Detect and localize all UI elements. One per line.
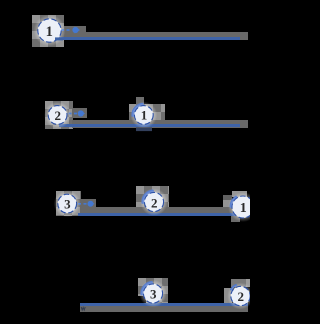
checkerboard cells behind badge 2 (row 4) [231, 279, 246, 287]
svg-text:2: 2 [55, 108, 62, 123]
badge 1 row 2 [130, 102, 157, 129]
badge 3 row 3 [54, 190, 81, 217]
gray highlight band row 2 [72, 120, 248, 128]
dashed arrow from badge 3 row 3 [78, 201, 95, 207]
dashed arrow from badge 1 row 1 [61, 27, 80, 34]
gray tooltip patch behind arrow row 3 [80, 199, 96, 208]
svg-text:1: 1 [46, 24, 53, 40]
badge 1 row 1 [34, 15, 66, 47]
blue underline row 2 [59, 124, 240, 127]
thick arc highlight at badge 1 row 2 [133, 104, 142, 115]
blue underline row 4 [80, 303, 248, 306]
badges and arrows overlay [0, 0, 250, 324]
thick arc highlight at badge 2 row 3 [143, 191, 153, 202]
badge 1 row 3 [228, 192, 258, 222]
blue underline overlapping badge 1 row 1 [55, 37, 63, 40]
badge 2 row 2 [44, 102, 71, 129]
thick arc highlight at badge 3 row 4 [142, 283, 152, 294]
gray tooltip patch behind arrow row 1 [64, 26, 86, 34]
faint text remnant under badge 1 row 2 [136, 128, 152, 132]
gray highlight band row 1 [64, 32, 248, 41]
svg-text:2: 2 [237, 289, 244, 304]
checkerboard cells behind badge 1 (row 3) [232, 191, 247, 197]
badge 3 row 4 [139, 280, 167, 308]
blue underline row 3 [78, 213, 244, 216]
svg-text:1: 1 [240, 201, 247, 216]
checkerboard behind badge 1 (row 1) [32, 15, 64, 47]
gray highlight band row 4 [80, 306, 248, 311]
blue underline row 1 [55, 37, 240, 40]
checkerboard behind badge 3 (row 3) [56, 191, 81, 216]
badge 2 row 4 [227, 283, 254, 310]
short arc mark at badge 2 row 4 [231, 285, 236, 290]
faint glyph mark at row 4 band start [81, 307, 85, 310]
svg-text:1: 1 [141, 107, 148, 122]
thick arc highlight at badge 1 row 3 [231, 197, 236, 207]
gray tooltip patch behind arrow row 2 [72, 108, 87, 118]
checkerboard behind badge 1 (row 2) [129, 104, 166, 127]
checkerboard behind badge 2 (row 3) [136, 186, 169, 213]
checkerboard behind badge 2 (row 2) [45, 101, 73, 129]
gray highlight band row 3 [80, 207, 250, 216]
checkerboard behind badge 3 (row 4) [138, 278, 168, 304]
svg-text:3: 3 [64, 196, 71, 211]
svg-text:3: 3 [150, 286, 157, 301]
badge 2 row 3 [140, 188, 168, 216]
svg-text:2: 2 [151, 196, 158, 211]
dashed arrow from badge 2 row 2 [69, 110, 86, 117]
